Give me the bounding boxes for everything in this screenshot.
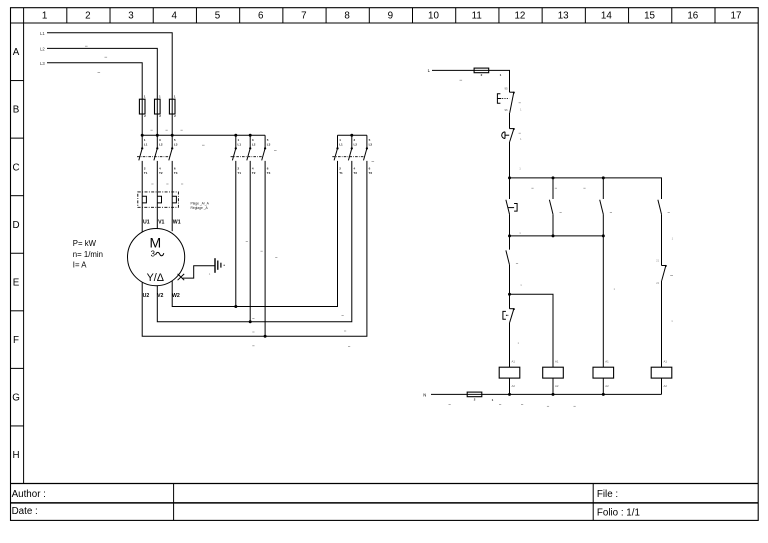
svg-text:L1: L1 — [238, 143, 242, 147]
svg-text:21: 21 — [656, 258, 660, 262]
contact NC stop S1 — [510, 128, 515, 142]
svg-text:T1: T1 — [339, 171, 343, 175]
svg-text:T3: T3 — [267, 171, 271, 175]
svg-text:L3: L3 — [174, 143, 178, 147]
junction — [508, 393, 511, 396]
wire — [552, 178, 554, 199]
contact NO start S2 — [506, 200, 510, 214]
svg-text:A1: A1 — [605, 360, 609, 364]
svg-text:Date :: Date : — [12, 506, 38, 517]
svg-text:A2: A2 — [555, 384, 559, 388]
wire L supply — [432, 70, 510, 92]
svg-text:9: 9 — [388, 11, 393, 22]
thermal relay F4 heater 2 — [157, 196, 161, 203]
svg-text:W2: W2 — [172, 293, 180, 299]
svg-text:A2: A2 — [605, 384, 609, 388]
label mark KM3 — [274, 150, 277, 152]
wire number labels — [151, 129, 153, 131]
svg-text:8: 8 — [344, 11, 350, 22]
label mark near KM1 — [202, 144, 205, 146]
svg-text:T2: T2 — [252, 171, 256, 175]
coil KM2 — [543, 367, 564, 378]
contactor KM1 pole 1 top pin — [141, 135, 143, 148]
svg-text:L2: L2 — [159, 143, 163, 147]
contactor KM3 pole 2 fixed contact — [249, 147, 251, 149]
fuse F2 — [156, 99, 158, 114]
thermal relay F4 box — [138, 192, 179, 207]
svg-text:C: C — [12, 162, 19, 173]
contactor KM1 pole 3 fixed contact — [171, 147, 173, 149]
junction bus delta — [249, 134, 252, 137]
contactor KM2 pole 1 blade — [334, 148, 337, 160]
svg-text:D: D — [12, 220, 19, 231]
wire star bridge — [338, 134, 367, 136]
contactor KM3 pole 2 blade — [247, 148, 250, 160]
svg-text:17: 17 — [731, 11, 742, 22]
KA1 actuator — [503, 311, 506, 319]
svg-text:n= 1/min: n= 1/min — [73, 250, 103, 259]
contactor KM3 pole 1 bottom pin — [235, 161, 237, 307]
wire — [661, 281, 663, 368]
contact NO KA1 aux — [506, 250, 510, 264]
svg-text:6: 6 — [258, 11, 264, 22]
wire — [509, 265, 511, 294]
junction — [508, 234, 511, 237]
wire labels N line — [449, 403, 451, 405]
svg-text:12: 12 — [514, 11, 525, 22]
svg-text:95: 95 — [504, 87, 508, 91]
svg-text:E: E — [13, 277, 20, 288]
label mark KM1 13-14 — [531, 187, 533, 189]
svg-text:U1: U1 — [143, 219, 150, 225]
wire stop to node — [509, 142, 511, 178]
svg-text:Folio : 1/1: Folio : 1/1 — [597, 508, 640, 519]
junction — [508, 176, 511, 179]
svg-text:A1: A1 — [512, 360, 516, 364]
contactor KM1 pole 3 blade — [169, 148, 172, 160]
thermal relay F4 heater 3 — [172, 196, 176, 203]
contactor KM2 pole 3 blade — [364, 148, 367, 160]
wire label marks — [85, 45, 88, 47]
thermal F4 actuator — [497, 94, 500, 104]
junction — [552, 393, 555, 396]
svg-text:Plage _A/_A: Plage _A/_A — [191, 201, 210, 205]
wire coil KM1 to N — [602, 378, 604, 394]
mechanical link KM3 — [231, 156, 263, 158]
contactor KM3 pole 3 top pin — [264, 135, 266, 148]
contactor KM1 pole 1 blade — [139, 148, 142, 160]
contactor KM1 pole 3 bottom pin — [171, 161, 173, 192]
junction — [552, 234, 555, 237]
contactor KM2 pole 1 top pin — [337, 135, 339, 148]
wire — [509, 294, 511, 309]
coil KM3 — [651, 367, 672, 378]
junction — [508, 293, 511, 296]
wire supply bus — [142, 134, 265, 136]
svg-text:15: 15 — [644, 11, 655, 22]
thermal relay F4 heater 1 — [142, 196, 146, 203]
label mark KM2 21-22 — [670, 274, 673, 276]
junction delta-V2 — [249, 320, 252, 323]
contactor KM1 pole 2 fixed contact — [156, 147, 158, 149]
wire V2 — [157, 161, 351, 322]
ground PE terminal X — [178, 274, 185, 280]
wire U2 — [142, 161, 367, 336]
wire L2 — [47, 48, 157, 99]
svg-text:10: 10 — [428, 11, 439, 22]
svg-text:M: M — [149, 234, 161, 250]
contactor KM3 pole 1 blade — [232, 148, 235, 160]
label mark aux contact — [583, 187, 585, 189]
motor M1 — [128, 229, 185, 286]
wire coil KA1 to N — [509, 378, 511, 394]
svg-text:A: A — [13, 47, 20, 58]
junction bus — [156, 134, 159, 137]
mechanical link KM2 — [332, 156, 364, 158]
wire number labels delta risers — [246, 240, 248, 242]
contactor KM1 pole 3 top pin — [171, 135, 173, 148]
wire L3 — [47, 63, 142, 100]
svg-text:14: 14 — [601, 11, 612, 22]
svg-text:P= kW: P= kW — [73, 239, 97, 248]
wire — [602, 214, 604, 236]
stop S1 actuator — [502, 132, 505, 139]
svg-text:L3: L3 — [40, 61, 45, 66]
svg-text:A2: A2 — [664, 384, 668, 388]
wire — [602, 236, 604, 367]
wire — [552, 214, 554, 236]
contactor KM3 pole 3 bottom pin — [264, 161, 266, 336]
junction — [602, 393, 605, 396]
junction bus — [171, 134, 174, 137]
svg-text:7: 7 — [301, 11, 306, 22]
wire fuse F3 to bus — [171, 114, 173, 135]
fuse F6 — [467, 392, 482, 397]
contact NO aux 13-14 — [600, 200, 604, 214]
svg-text:L3: L3 — [369, 143, 373, 147]
svg-text:A1: A1 — [555, 360, 559, 364]
contactor KM2 pole 2 top pin — [351, 135, 353, 148]
wire — [509, 322, 511, 367]
svg-text:3: 3 — [151, 249, 155, 258]
svg-text:5: 5 — [215, 11, 221, 22]
svg-text:1: 1 — [42, 11, 47, 22]
wire label L — [460, 79, 463, 81]
start S2 actuator — [508, 207, 514, 209]
contact NC KM2 21-22 — [662, 265, 667, 281]
svg-text:T3: T3 — [369, 171, 373, 175]
contactor KM1 pole 1 fixed contact — [141, 147, 143, 149]
wire number labels above F4 — [151, 183, 153, 185]
mechanical link KM1 — [137, 156, 170, 158]
label mark S1 — [519, 132, 521, 134]
contactor KM3 pole 3 blade — [262, 148, 265, 160]
wire node line 1 — [510, 178, 662, 199]
label mark KM2 — [372, 161, 375, 163]
svg-text:2: 2 — [85, 11, 90, 22]
svg-text:16: 16 — [687, 11, 698, 22]
junction bus delta — [234, 134, 237, 137]
wire — [509, 178, 511, 199]
contactor KM3 pole 2 top pin — [249, 135, 251, 148]
svg-text:96: 96 — [504, 108, 508, 112]
svg-text:A2: A2 — [512, 384, 516, 388]
svg-text:T3: T3 — [174, 171, 178, 175]
fuse F1 — [141, 99, 143, 114]
svg-text:13: 13 — [558, 11, 569, 22]
svg-text:T1: T1 — [238, 171, 242, 175]
coil KM1 — [593, 367, 614, 378]
junction — [602, 176, 605, 179]
wire F4 to motor terminal — [156, 192, 158, 229]
coil KA1 — [499, 367, 520, 378]
wire coil KM2 to N — [552, 378, 554, 394]
label mark aux KM1 — [668, 212, 670, 214]
wire — [509, 236, 511, 250]
fuse F3 — [171, 99, 173, 114]
contactor KM1 pole 1 bottom pin — [141, 161, 143, 192]
svg-text:G: G — [12, 393, 20, 404]
svg-text:22: 22 — [656, 281, 660, 285]
contactor KM3 pole 3 fixed contact — [264, 147, 266, 149]
svg-text:L1: L1 — [144, 143, 148, 147]
svg-text:T2: T2 — [354, 171, 358, 175]
wire node line 3 — [510, 294, 554, 367]
svg-text:Réglage _A: Réglage _A — [191, 206, 209, 210]
svg-text:4: 4 — [172, 11, 178, 22]
wire fuse F1 to bus — [141, 114, 143, 135]
svg-text:L1: L1 — [40, 31, 45, 36]
contactor KM1 pole 2 blade — [154, 148, 157, 160]
wire coil KM3 to N — [661, 378, 663, 394]
wire PE — [183, 266, 215, 278]
svg-text:W1: W1 — [173, 219, 181, 225]
fuse F5 — [474, 68, 489, 73]
wire — [509, 113, 511, 129]
svg-text:T1: T1 — [144, 171, 148, 175]
contactor KM1 pole 2 top pin — [156, 135, 158, 148]
svg-text:F: F — [13, 335, 19, 346]
junction — [602, 234, 605, 237]
svg-text:L1: L1 — [339, 143, 343, 147]
contact NO KM1 13-14 — [549, 200, 553, 214]
svg-text:Author :: Author : — [12, 489, 46, 500]
contactor KM3 pole 2 bottom pin — [249, 161, 251, 322]
svg-text:B: B — [13, 105, 20, 116]
svg-text:V2: V2 — [157, 293, 163, 299]
svg-text:A1: A1 — [664, 360, 668, 364]
svg-text:L2: L2 — [252, 143, 256, 147]
svg-text:H: H — [12, 450, 19, 461]
label mark F4 contact — [519, 102, 521, 104]
contactor KM3 pole 1 fixed contact — [235, 147, 237, 149]
wire N — [431, 393, 662, 395]
junction delta-U2 — [264, 335, 267, 338]
svg-text:File :: File : — [597, 489, 618, 500]
svg-text:L2: L2 — [354, 143, 358, 147]
wire W2 — [172, 161, 337, 307]
contactor KM3 pole 1 top pin — [235, 135, 237, 148]
contactor KM2 pole 2 fixed contact — [351, 147, 353, 149]
contact NC KA1 55-56 — [510, 308, 515, 322]
svg-text:N: N — [423, 392, 426, 397]
svg-text:L2: L2 — [40, 46, 45, 51]
wire — [661, 214, 663, 265]
svg-text:I= A: I= A — [73, 260, 87, 269]
ground symbol — [215, 258, 225, 273]
label mark KA1 aux — [516, 262, 518, 264]
svg-text:3: 3 — [128, 11, 134, 22]
svg-text:T2: T2 — [159, 171, 163, 175]
svg-text:11: 11 — [472, 11, 482, 22]
junction delta-W2 — [234, 305, 237, 308]
junction — [552, 176, 555, 179]
contactor KM2 pole 1 fixed contact — [336, 147, 338, 149]
contact NO aux KM1 13-14 — [658, 200, 662, 214]
svg-text:L3: L3 — [267, 143, 271, 147]
wire — [509, 214, 511, 236]
contactor KM2 pole 2 blade — [348, 148, 351, 160]
wire number labels bottom lines — [252, 317, 254, 319]
contact NC thermal F4 95-96 — [510, 92, 515, 113]
wire L1 — [47, 33, 172, 100]
wire F4 to motor terminal — [171, 192, 173, 231]
junction bus — [141, 134, 144, 137]
wire fuse F2 to bus — [156, 114, 158, 135]
wire — [602, 178, 604, 199]
junction star bridge — [350, 134, 353, 137]
contactor KM2 pole 3 fixed contact — [366, 147, 368, 149]
svg-text:Y/Δ: Y/Δ — [147, 272, 164, 284]
wire F4 to motor terminal — [141, 192, 143, 232]
contactor KM1 pole 2 bottom pin — [156, 161, 158, 192]
contactor KM2 pole 3 top pin — [366, 135, 368, 148]
svg-text:U2: U2 — [143, 293, 150, 299]
wire node line 2 — [510, 235, 604, 237]
svg-text:V1: V1 — [158, 219, 164, 225]
